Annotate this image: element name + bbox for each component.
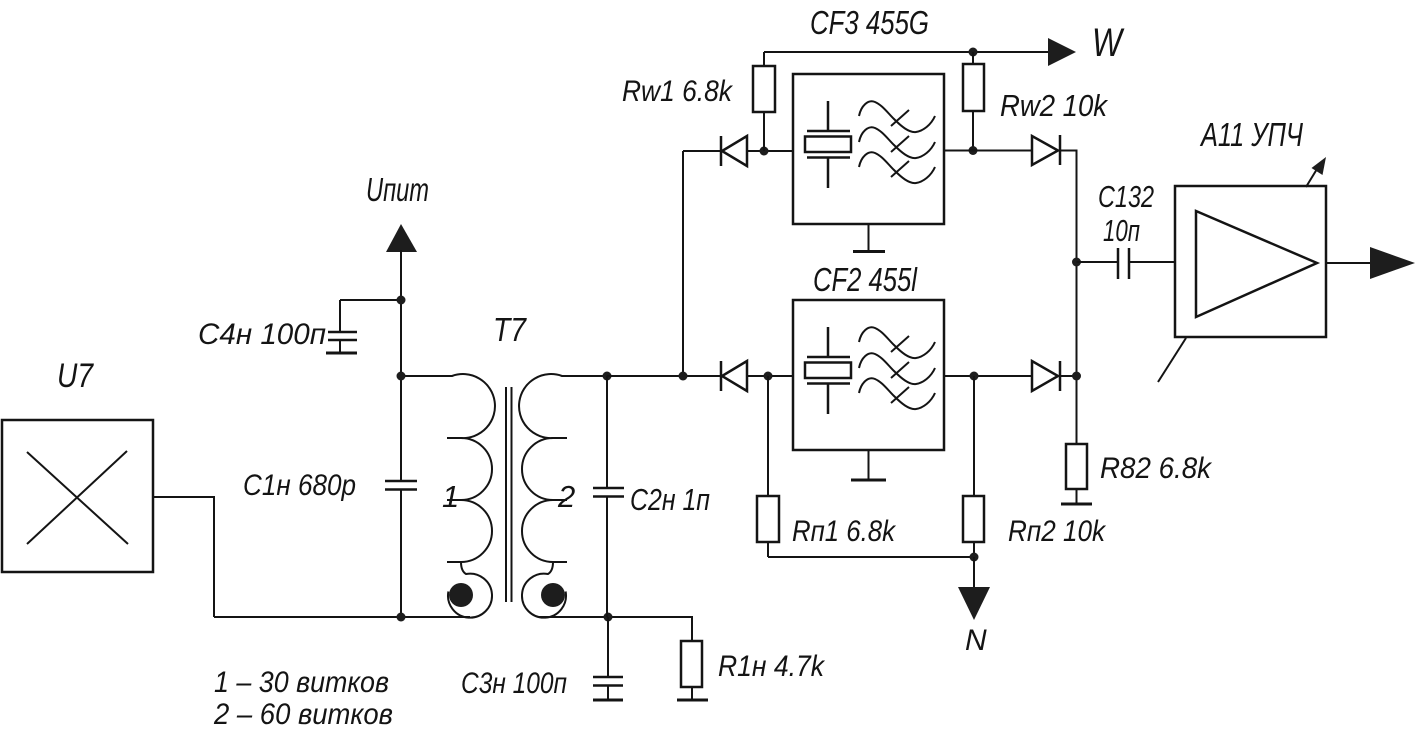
svg-text:T7: T7 — [493, 311, 527, 348]
capacitor C132 plates — [1118, 248, 1129, 279]
resistor Rп2 — [963, 496, 984, 542]
transformer T7 polarity dot secondary — [541, 583, 565, 607]
wire top W rail — [764, 51, 1050, 53]
svg-text:N: N — [965, 624, 987, 657]
power arrow Uпит — [386, 224, 417, 252]
svg-text:1: 1 — [442, 479, 459, 514]
diode CF3 input bar — [720, 136, 723, 166]
resistor Rw1 — [753, 66, 775, 112]
wire CF2 diode to rail — [1060, 375, 1077, 377]
wave symbols in CF2 — [859, 327, 935, 358]
wire C2н rail lower — [606, 497, 608, 618]
svg-text:C1н 680p: C1н 680p — [243, 469, 356, 502]
crystal symbol in CF3 — [807, 101, 850, 188]
transformer T7 primary winding 1 — [401, 374, 495, 618]
svg-text:Rw2 10k: Rw2 10k — [1000, 88, 1108, 123]
wire diode to CF2 box — [747, 375, 793, 377]
amplifier gain arrowhead — [1312, 157, 1327, 175]
wire C4н branch — [340, 300, 401, 332]
diode CF2 output bar — [1059, 361, 1062, 391]
node Rw1 bottom junction — [760, 147, 769, 156]
node T7 primary top junction — [397, 372, 406, 381]
resistor R82 bottom lead and bar — [1076, 489, 1078, 504]
amplifier A11 box — [1175, 186, 1326, 337]
node T7 secondary bottom junction — [604, 613, 613, 622]
svg-text:2: 2 — [557, 479, 575, 514]
arrow W — [1048, 38, 1076, 66]
resistor R1н — [681, 641, 702, 687]
wire U7 output to bottom rail — [153, 497, 214, 617]
diode CF2 input triangle — [722, 361, 747, 391]
capacitor C3н lead — [607, 617, 609, 677]
wire Rп2 leads — [973, 376, 975, 557]
svg-text:C2н 1п: C2н 1п — [630, 482, 710, 517]
svg-text:CF2 455l: CF2 455l — [813, 261, 918, 298]
svg-text:A11 УПЧ: A11 УПЧ — [1199, 116, 1303, 153]
transformer T7 primary cusp ticks — [447, 438, 461, 562]
ground stub CF3 — [868, 224, 870, 252]
wire Rп1 leads — [767, 376, 769, 557]
mixer U7 cross line 2 — [27, 451, 127, 544]
svg-text:Rп2 10k: Rп2 10k — [1008, 515, 1107, 548]
node Rп1 top junction — [764, 372, 773, 381]
wire CF3 diode to rail corner — [1060, 151, 1077, 445]
svg-text:CF3 455G: CF3 455G — [810, 4, 929, 41]
mixer U7 cross line 1 — [27, 452, 128, 544]
wire Rw1 bottom lead — [763, 112, 765, 151]
diode CF3 output bar — [1059, 135, 1062, 165]
crystal symbol in CF2 — [807, 327, 850, 414]
wire Rw1 top lead — [763, 52, 765, 66]
node Rw2 bottom junction — [969, 146, 978, 155]
resistor R1н bottom lead and bar — [691, 687, 693, 700]
node Rw2 top junction — [969, 48, 978, 57]
svg-text:R1н 4.7k: R1н 4.7k — [718, 650, 826, 683]
wire diode to CF3 box — [747, 150, 793, 152]
diode CF3 output triangle — [1032, 136, 1058, 165]
wire CF3 output to diode — [944, 150, 1032, 152]
node T7 primary bottom junction — [397, 613, 406, 622]
amplifier adjust slash — [1158, 338, 1186, 382]
wire row2 from T7 to CF2 — [607, 375, 721, 377]
transformer T7 core lines — [506, 387, 512, 602]
resistor R82 — [1066, 444, 1087, 489]
transformer T7 polarity dot primary — [449, 583, 473, 607]
capacitor C4н plates — [328, 332, 357, 340]
svg-text:Uпит: Uпит — [366, 171, 429, 208]
wire amplifier output — [1326, 262, 1372, 264]
node row2 branch junction — [679, 372, 688, 381]
capacitor C2н plates — [593, 488, 624, 497]
capacitor C3н bottom lead and bar — [607, 686, 609, 701]
filter CF2 box — [793, 300, 944, 450]
filter CF3 box — [793, 74, 944, 224]
wire bottom rail right — [538, 617, 692, 641]
svg-text:R82 6.8k: R82 6.8k — [1100, 452, 1213, 485]
svg-text:1 – 30 витков: 1 – 30 витков — [214, 666, 389, 699]
capacitor C3н plates — [593, 677, 623, 686]
diode CF2 output triangle — [1032, 361, 1058, 391]
svg-text:U7: U7 — [57, 357, 94, 395]
resistor Rп1 — [757, 496, 779, 542]
svg-text:Rп1 6.8k: Rп1 6.8k — [792, 515, 897, 548]
wire CF2 output to diode — [944, 375, 1032, 377]
wire C132 to amplifier — [1130, 261, 1175, 263]
wave symbols in CF3 — [859, 101, 935, 132]
capacitor C4н bottom lead and bar — [339, 340, 341, 353]
capacitor C1н plates — [385, 481, 417, 490]
wire C2н rail upper — [606, 376, 608, 488]
ground stub CF2 — [868, 450, 870, 480]
wire row1 to CF3 diode — [683, 150, 721, 152]
node rail row2 junction — [1072, 372, 1081, 381]
svg-text:W: W — [1092, 21, 1125, 65]
node C132 junction — [1072, 258, 1081, 267]
arrow N — [958, 587, 990, 620]
arrow output — [1370, 247, 1415, 279]
transformer T7 secondary cusp ticks — [553, 438, 567, 562]
diode CF3 input triangle — [722, 136, 747, 166]
node T7 secondary top junction — [603, 372, 612, 381]
svg-text:10п: 10п — [1103, 213, 1140, 248]
svg-text:C132: C132 — [1098, 179, 1154, 214]
wire bottom rail left — [214, 616, 470, 618]
node Rп2 top junction — [970, 372, 979, 381]
node N junction — [970, 553, 979, 562]
wire Uпит rail lower — [400, 490, 402, 618]
mixer U7 box — [2, 420, 153, 572]
svg-text:2 – 60 витков: 2 – 60 витков — [213, 698, 393, 731]
node Uпит/C4н junction — [397, 296, 406, 305]
wire N stub — [973, 557, 975, 588]
svg-text:Rw1 6.8k: Rw1 6.8k — [622, 75, 734, 108]
wire Rп1 to Rп2 bottom — [768, 556, 974, 558]
wire vertical branch row2 to row1 — [682, 151, 684, 376]
wire Rw2 leads — [972, 52, 974, 151]
transformer T7 secondary winding 2 — [519, 374, 607, 618]
svg-text:C3н 100п: C3н 100п — [461, 667, 567, 700]
resistor Rw2 — [963, 64, 984, 111]
amplifier gain arrow line — [1306, 169, 1317, 187]
amplifier A11 triangle — [1196, 211, 1317, 317]
wire Uпит rail upper — [400, 250, 402, 481]
diode CF2 input bar — [720, 361, 723, 391]
wire rail to C132 — [1077, 261, 1118, 263]
svg-text:C4н 100п: C4н 100п — [198, 318, 326, 351]
